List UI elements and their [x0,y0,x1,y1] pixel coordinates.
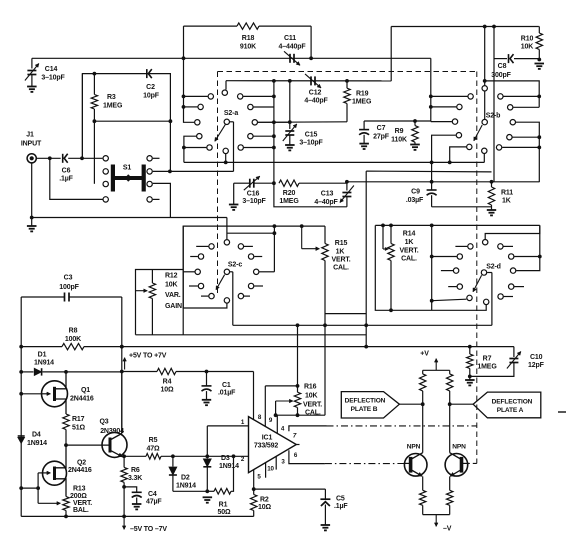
switch S2-a right contacts [238,94,243,99]
resistor R9 [414,121,416,126]
switch S2-a top center contact [222,90,227,95]
svg-text:3–10pF: 3–10pF [299,140,323,147]
wire C6 node up to box [81,74,83,159]
svg-text:2N4416: 2N4416 [68,467,92,474]
svg-text:3–10pF: 3–10pF [41,75,65,82]
svg-text:IC1: IC1 [262,435,273,442]
wire +5V to IC pin8 [253,372,255,420]
wire IC1 extra stub [275,456,277,469]
svg-text:910K: 910K [240,44,256,51]
svg-text:C15: C15 [305,132,318,139]
svg-text:R7: R7 [483,356,492,363]
switch S2-a left contacts [208,94,213,99]
svg-text:CAL.: CAL. [305,410,321,417]
resistor emitter left [422,476,424,490]
ground C5 [321,524,331,526]
wire S2-b right rows [504,95,540,97]
svg-text:10pF: 10pF [143,93,160,100]
svg-text:C16: C16 [247,191,260,198]
svg-text:10: 10 [267,466,274,473]
wire R14 box [375,225,486,310]
svg-text:DEFLECTION: DEFLECTION [492,399,533,406]
wire IC1 pin10 stub [265,463,267,478]
wire C3/R8 right vertical [121,297,123,433]
switch S2-a wiper [224,119,229,124]
switch S2-c left contacts [209,244,214,249]
resistor R4 [122,371,157,373]
svg-text:R5: R5 [149,437,158,444]
capacitor C11 variable [289,54,291,63]
node dot main/R18 left [182,56,186,60]
capacitor C6 [62,154,64,163]
switch S1 bars [111,165,115,192]
svg-text:S2-c: S2-c [228,262,242,269]
svg-text:4–40pF: 4–40pF [304,98,328,105]
node dot wiper feed S2-b [483,25,487,29]
wire ground bus y=217.5 [32,217,227,219]
wire main input node y=58 [32,57,431,59]
wire S1 row4 stub [153,198,160,200]
switch S1 left contacts [103,156,108,161]
wire collector loads top [423,369,450,371]
wire R3 bottom to switch column [94,120,170,122]
wire S2-a right column [273,81,275,183]
svg-text:C11: C11 [284,35,296,42]
node tick right edge [558,411,566,413]
svg-text:10Ω: 10Ω [258,504,271,511]
wire S2-d left rows [455,245,467,247]
wire S2-d right rows [504,245,514,247]
svg-text:D3: D3 [221,455,230,462]
wire top right to R10 [391,26,538,28]
wire S2-b feed y=171.5 [366,170,491,173]
svg-text:10K: 10K [521,44,533,51]
switch S2-c top center contact [224,240,229,245]
wire dashed linkage right [468,462,477,464]
svg-text:R1: R1 [219,502,228,509]
svg-text:R13: R13 [73,486,86,493]
switch S2-d left contacts [468,244,473,249]
svg-text:S2-b: S2-b [486,113,501,120]
svg-text:C4: C4 [148,491,157,498]
switch S2-a bottom center contact [223,148,228,153]
switch S2-b top center contact [482,86,487,91]
ground C7 [359,143,369,145]
wire C8 vertical to R11 node [493,27,495,182]
svg-text:C3: C3 [64,275,73,282]
svg-text:C13: C13 [321,191,334,198]
svg-text:PLATE A: PLATE A [497,407,524,414]
capacitor C12 variable [310,76,312,85]
transistor Q3 [102,432,127,457]
wire Q2 gate / R13 wiper [21,473,38,488]
svg-text:3–10pF: 3–10pF [242,198,266,205]
svg-text:50Ω: 50Ω [218,509,231,516]
svg-text:C7: C7 [377,125,386,132]
svg-text:12pF: 12pF [528,362,545,369]
svg-text:C10: C10 [530,354,543,361]
svg-text:1N914: 1N914 [176,483,196,490]
svg-text:VERT.: VERT. [73,500,92,507]
wire IC1 pin1 [207,425,248,427]
wire S2-c right column [273,226,275,272]
diode D2 [171,454,175,458]
svg-text:NPN: NPN [407,444,421,451]
resistor R13 pot [63,497,69,511]
wire J1 to S1 [36,157,60,159]
svg-text:47Ω: 47Ω [147,446,160,453]
wire rail A y=325.3 [233,324,492,326]
wire IC1 apex stub [296,444,299,446]
svg-text:+5V TO +7V: +5V TO +7V [129,353,167,360]
node deflection plate B flag [341,392,399,418]
resistor R6 [123,456,125,467]
svg-text:C1: C1 [222,382,231,389]
svg-text:BAL.: BAL. [73,507,89,514]
svg-text:C5: C5 [336,496,345,503]
svg-text:R2: R2 [260,497,269,504]
svg-text:R19: R19 [356,91,369,98]
svg-text:C14: C14 [45,66,58,73]
wire S2-c center link [227,232,275,234]
svg-text:.03µF: .03µF [406,197,424,204]
wire J1 ground drop [31,163,33,226]
wire R16 bottom [276,414,325,416]
capacitor C5 [254,488,326,490]
svg-text:.1µF: .1µF [334,503,348,510]
svg-text:D2: D2 [181,475,190,482]
wire IC1 pin3 output [289,450,325,463]
resistor R12 pot [151,270,153,284]
dashed gang line S2-a/S2-c [217,72,219,294]
capacitor C13 variable [346,182,348,191]
svg-text:VAR.: VAR. [165,292,181,299]
capacitor C8 [494,58,507,60]
ground C14 [27,86,36,88]
switch S1 right contacts [147,156,152,161]
wire S2-d top feed [375,224,540,226]
resistor R18 [183,26,185,58]
svg-text:1MEG: 1MEG [103,103,123,110]
svg-text:1N914: 1N914 [219,463,239,470]
resistor R20 [279,180,299,186]
svg-text:PLATE B: PLATE B [351,406,378,413]
transistor NPN left [404,454,427,477]
wire J1 node down to row4 [50,158,104,199]
diode D4 [18,435,25,437]
resistor R3 [93,72,97,76]
svg-text:10Ω: 10Ω [161,387,174,394]
wire attenuator node y=81 [226,80,391,82]
svg-text:4–440pF: 4–440pF [279,44,307,51]
switch S2-d right contacts [498,244,503,249]
capacitor C9 [430,180,434,184]
svg-text:1K: 1K [336,249,345,256]
wire S1 row3 down to ground bus [153,183,171,217]
svg-text:C6: C6 [62,168,71,175]
wire Q3 emitter node [123,455,125,457]
svg-text:.1µF: .1µF [59,176,73,183]
svg-text:3.3K: 3.3K [128,475,142,482]
wire +V long rail y=346.6 [21,346,62,348]
wire rail B y=334.8 [136,334,367,336]
ground R10 [535,63,545,65]
svg-text:733/592: 733/592 [254,443,279,450]
resistor R2 [253,489,255,494]
svg-text:27pF: 27pF [373,134,390,141]
resistor R8 [20,297,22,516]
svg-text:D1: D1 [38,352,47,359]
resistor R19 [346,81,348,88]
wire S2-b branch to right rail [485,81,540,107]
wire S2-d feed vertical x=366 [365,171,367,347]
switch S2-b left contacts [468,94,473,99]
svg-text:J1: J1 [26,132,34,139]
svg-text:C2: C2 [146,84,155,91]
wire S2-a left rows 1-3 [184,58,195,122]
svg-text:110K: 110K [391,137,407,144]
wire plate A to collector [450,403,473,405]
resistor R7 [469,347,471,354]
svg-text:1MEG: 1MEG [477,364,497,371]
wire IC1 wiper pin [276,415,278,433]
capacitor C3 [21,296,64,298]
ground C1 [202,399,211,401]
svg-text:R17: R17 [72,416,85,423]
capacitor C16 variable [229,204,239,206]
svg-text:2N4416: 2N4416 [70,396,94,403]
switch S2-b bottom center contact [482,148,487,153]
resistor R16 pot [265,385,297,387]
capacitor C7 [363,121,365,130]
svg-text:R18: R18 [242,35,255,42]
svg-text:GAIN: GAIN [165,303,182,310]
switch S2-c wiper [224,269,229,274]
dashed gang line S2-b/S2-d [476,72,478,464]
switch S2-b right contacts [498,94,503,99]
svg-text:1MEG: 1MEG [352,99,372,106]
svg-text:200Ω: 200Ω [70,493,87,500]
svg-text:Q3: Q3 [99,419,108,426]
svg-text:R9: R9 [395,128,404,135]
wire -V [423,514,450,516]
svg-text:Q2: Q2 [77,460,86,467]
op-amp IC1 733/592 [249,417,297,473]
svg-text:CAL.: CAL. [333,265,349,272]
svg-text:4–40pF: 4–40pF [314,199,338,206]
wire R12 box [136,270,184,335]
svg-text:47µF: 47µF [146,499,162,506]
svg-text:+V: +V [420,351,429,358]
diode D3 [205,454,209,458]
svg-text:100pF: 100pF [59,284,79,291]
svg-text:S1: S1 [123,165,132,172]
wire S2-c box [183,226,274,308]
wire attenuator output y=182 [347,181,539,183]
switch S2-d bottom center contact [484,299,489,304]
switch S2-c right contacts [238,244,243,249]
ground R11 [487,209,496,211]
svg-text:C9: C9 [411,189,420,196]
transistor NPN right [445,454,468,477]
resistor R15 pot [274,225,325,227]
wire S2-c left stubs [196,245,208,247]
switch S2-b wiper [484,91,486,119]
svg-text:100K: 100K [65,336,81,343]
transistor Q2 [43,461,67,485]
wire R15 bottom link y=313.6 [325,313,366,315]
svg-text:10K: 10K [305,393,317,400]
svg-text:VERT.: VERT. [303,402,322,409]
svg-text:–V: –V [443,526,452,533]
svg-text:.01µF: .01µF [218,390,236,397]
dashed switch boundary top [218,71,477,73]
diode D1 [21,371,33,373]
svg-text:Q1: Q1 [81,387,90,394]
svg-text:R11: R11 [501,190,513,197]
svg-text:CAL.: CAL. [401,256,417,263]
wire common bus y=162.4 [184,161,484,163]
capacitor C10 variable [513,347,515,357]
wire plate B to collector [399,403,422,405]
wire R20 box [274,183,347,207]
ground D3 node [173,490,207,492]
capacitor C4 [124,487,137,492]
ground C4 [132,503,142,505]
transistor Q1 [42,381,68,407]
resistor collector load left [422,370,424,374]
svg-text:R3: R3 [107,94,116,101]
wire C7/R9 node to rail [364,120,431,122]
svg-text:R4: R4 [163,379,172,386]
svg-text:S2-d: S2-d [486,264,501,271]
resistor R14 pot [389,224,393,228]
svg-text:S2-a: S2-a [224,110,238,117]
resistor R5 [124,455,146,457]
svg-text:INPUT: INPUT [21,141,42,148]
svg-text:C12: C12 [309,90,322,97]
svg-text:R8: R8 [69,328,78,335]
node deflection plate A flag [473,392,541,418]
resistor collector load right [449,370,451,374]
svg-text:–5V TO –7V: –5V TO –7V [130,526,167,533]
svg-text:R10: R10 [521,36,534,43]
resistor R17 [63,414,69,430]
svg-text:C8: C8 [498,63,507,70]
wire C15 node y=122 [258,121,347,124]
node dot C8 branch [492,25,496,29]
wire S1 row1 stub [153,157,160,159]
ground R7 [465,379,475,381]
connector J1 input jack [27,154,36,163]
svg-text:1MEG: 1MEG [279,198,299,205]
capacitor C14 [31,58,33,68]
wire IC1 pin4 output [289,426,327,431]
wire IC1 pin9 [264,386,266,426]
wire box R3/C2 outline [82,74,170,172]
wire IC1 pin5 [253,470,255,490]
wire S2-a left rows 4-5 to bus [184,136,196,162]
capacitor C15 variable [289,81,291,129]
svg-text:R12: R12 [165,273,178,280]
capacitor C1 [205,370,209,374]
ground J1 [27,225,37,227]
resistor emitter right [449,476,451,490]
svg-text:1N914: 1N914 [34,360,54,367]
switch S2-c bottom center contact [224,298,229,303]
label +5V rail [124,358,126,370]
wire S2-d left column [431,225,433,310]
switch S2-d wiper [481,270,486,275]
label -5V rail [123,518,125,530]
resistor R10 [537,26,540,28]
wire S2-b left rows [431,95,468,97]
svg-text:10K: 10K [165,282,177,289]
svg-text:R15: R15 [335,240,348,247]
svg-text:D4: D4 [32,432,41,439]
svg-text:R16: R16 [304,384,317,391]
svg-text:R14: R14 [403,231,416,238]
svg-text:NPN: NPN [452,444,466,451]
wire main node corner down x=430.8 [430,58,432,121]
svg-text:51Ω: 51Ω [72,425,85,432]
wire S1 row2 to S2-a wiper [153,170,234,172]
switch S2-d top center contact [483,240,488,245]
svg-text:2N3904: 2N3904 [100,428,124,435]
svg-text:1N914: 1N914 [27,440,47,447]
wire S2-c right stubs [244,245,253,247]
ground C15 [285,144,295,146]
resistor R11 [490,180,494,184]
svg-text:R6: R6 [131,467,140,474]
ground R9 [410,144,420,146]
node dot main/C11 right [309,56,313,60]
wire -5V rail [21,515,254,517]
svg-text:R20: R20 [283,190,296,197]
capacitor C2 [146,69,148,78]
svg-text:DEFLECTION: DEFLECTION [345,398,386,405]
resistor R1 [207,490,214,492]
svg-text:1K: 1K [405,239,414,246]
svg-text:1K: 1K [502,198,511,205]
svg-text:VERT.: VERT. [399,248,418,255]
svg-text:VERT.: VERT. [331,257,350,264]
